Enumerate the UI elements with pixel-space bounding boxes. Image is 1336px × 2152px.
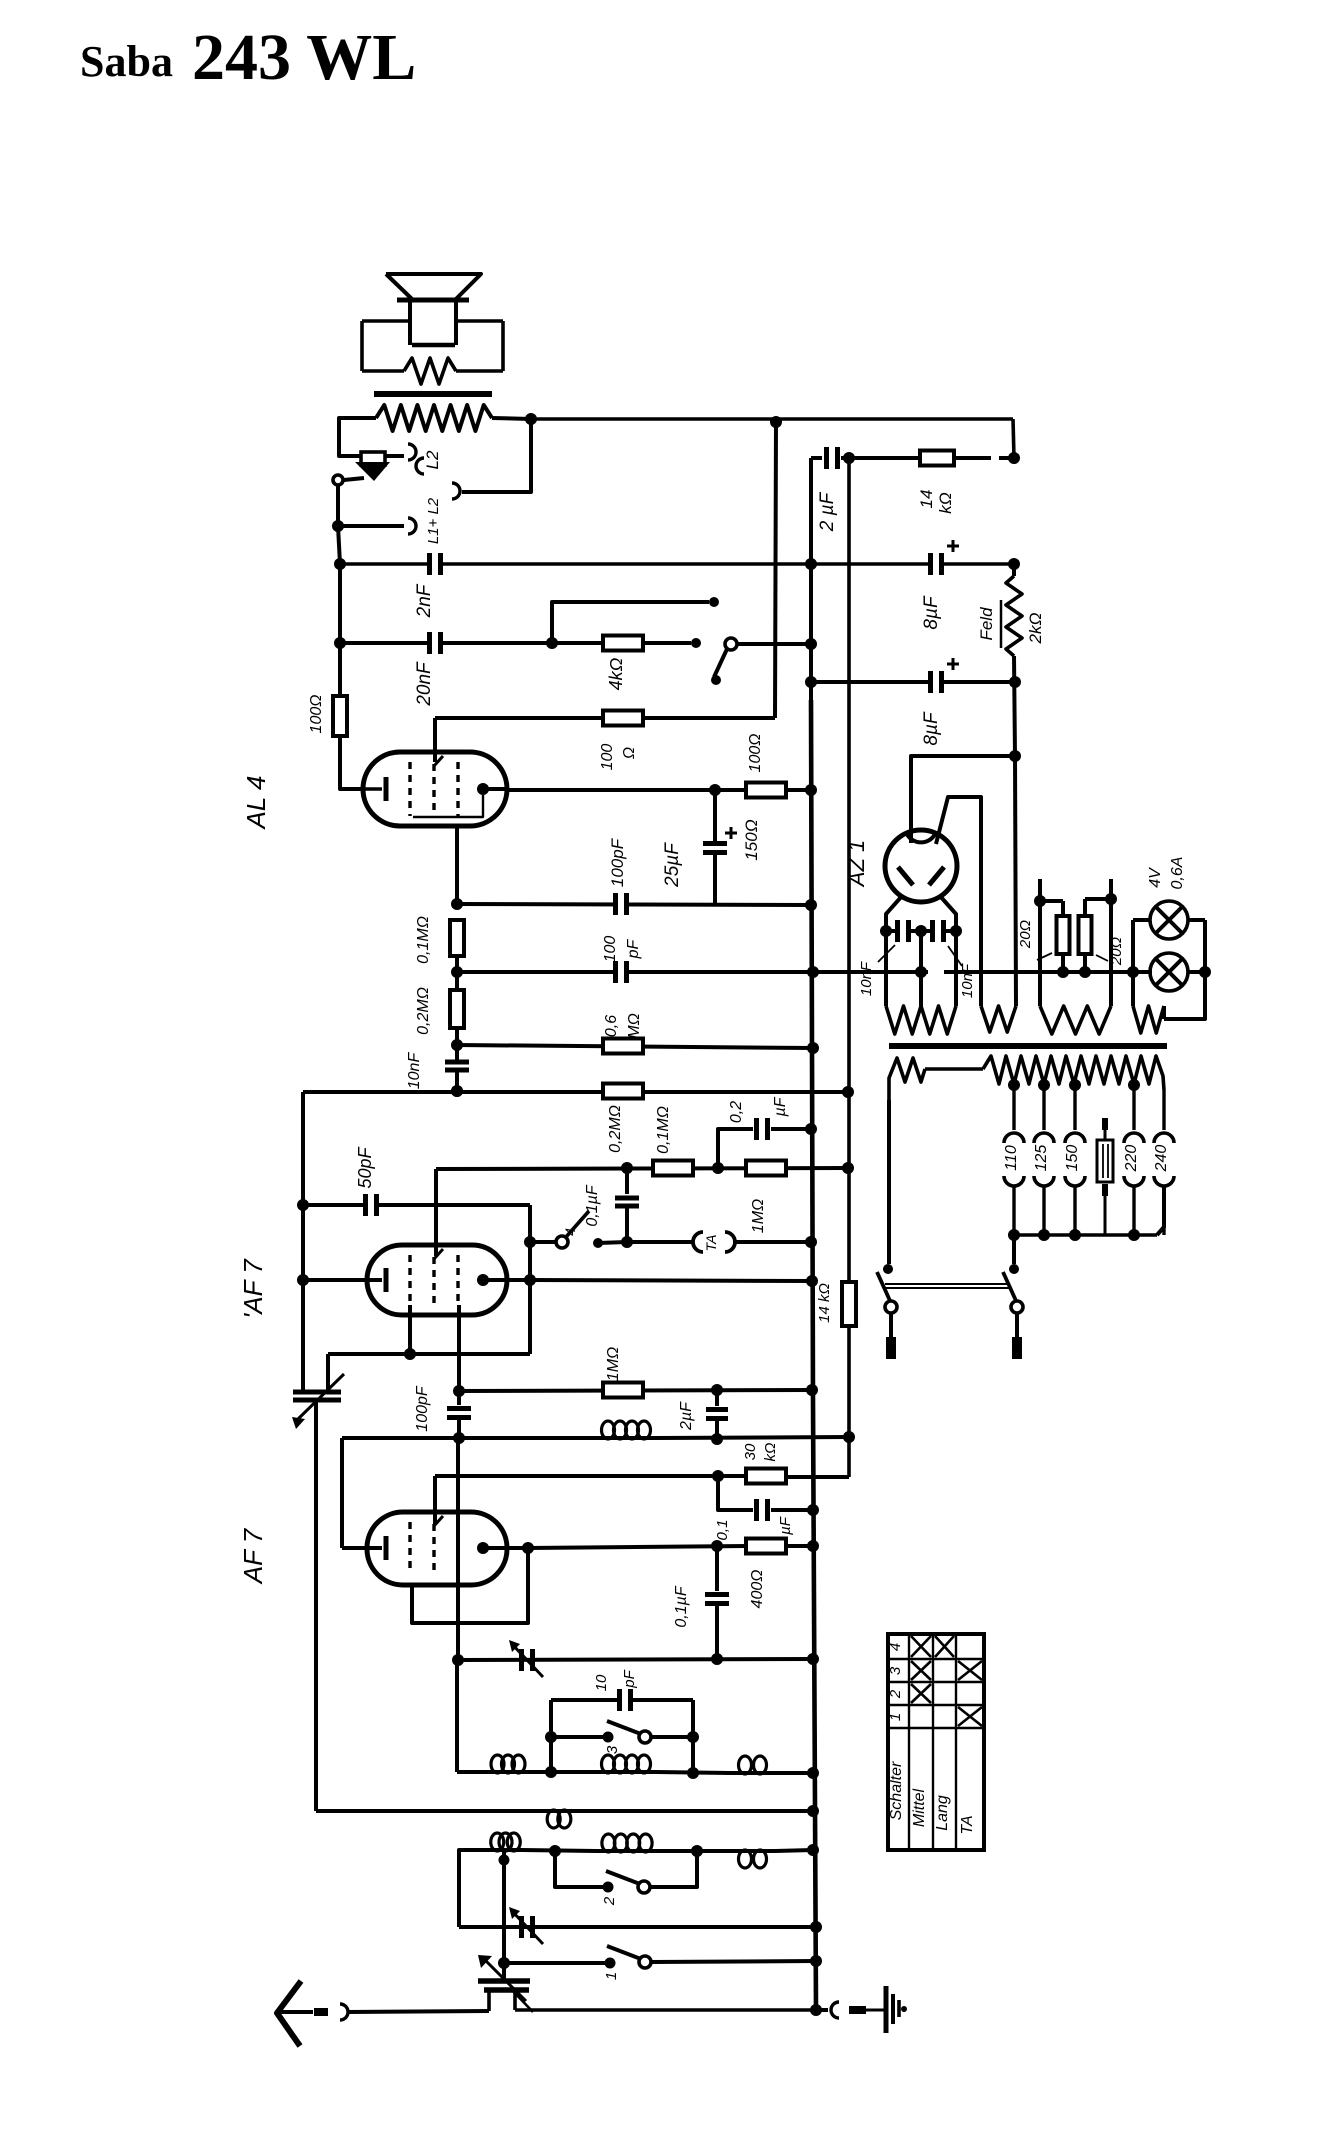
node tap 125 <box>1038 1079 1050 1091</box>
node coilrow mid <box>545 1766 557 1778</box>
wire AF7a grid rail <box>303 1278 382 1282</box>
node rail1546 stub <box>711 1540 723 1552</box>
coil ant2 <box>596 1770 656 1774</box>
switch tone pivot <box>725 638 737 650</box>
tap arc 150 lower <box>1065 1176 1085 1186</box>
node 20nF-4k junction <box>546 637 558 649</box>
mains switch left arm <box>877 1272 891 1303</box>
wire right rail to winding <box>1015 756 1016 1006</box>
wire rail 458 <box>811 456 822 460</box>
tap wire 125 lower <box>1042 1185 1045 1235</box>
mains switch left contact <box>883 1264 893 1274</box>
svg-text:AL 4: AL 4 <box>241 775 271 830</box>
wire right rail segment <box>1012 564 1016 576</box>
svg-text:100Ω: 100Ω <box>308 695 325 734</box>
capacitor 10nF left <box>886 929 899 933</box>
node sw3 right <box>687 1731 699 1743</box>
wire AF7a box left down <box>326 1354 330 1391</box>
resistor 20ohm a <box>1040 899 1063 903</box>
node rail1438 left <box>453 1432 465 1444</box>
wire tuning cap to ground bus <box>515 2008 816 2012</box>
svg-text:L2: L2 <box>423 450 442 469</box>
tube AL4 envelope <box>363 752 507 826</box>
svg-text:220: 220 <box>1123 1145 1140 1173</box>
node rail1546 bus <box>807 1540 819 1552</box>
node left bus top <box>332 520 344 532</box>
node 20ohm b rail <box>1079 966 1091 978</box>
speaker magnet housing <box>362 319 410 323</box>
svg-text:400Ω: 400Ω <box>749 1570 766 1609</box>
node rail1390 bus <box>806 1384 818 1396</box>
node coilrow bus <box>807 1767 819 1779</box>
wire primary left down <box>887 1100 891 1264</box>
wire to connector L1+L2 <box>338 524 404 528</box>
svg-text:MΩ: MΩ <box>626 1013 643 1039</box>
node rail1811 bus <box>807 1805 819 1817</box>
node rail682 right <box>1009 676 1021 688</box>
svg-text:2: 2 <box>601 1896 618 1906</box>
node screen top bus <box>770 416 782 428</box>
node 10nF right <box>950 925 962 937</box>
wire osc tap down <box>502 1861 506 1963</box>
node ground bus <box>810 2004 822 2016</box>
svg-text:10: 10 <box>593 1674 610 1691</box>
svg-text:Ω: Ω <box>621 747 638 759</box>
svg-text:AZ 1: AZ 1 <box>844 840 869 888</box>
svg-text:150Ω: 150Ω <box>742 819 761 860</box>
resistor 1M b <box>603 1383 643 1398</box>
tube AF7a grid1 dashed <box>408 1255 411 1305</box>
switch 3 <box>603 1732 614 1743</box>
wire rail 904 <box>457 904 811 905</box>
speaker cone wedge <box>355 462 390 481</box>
variable capacitor plates <box>478 1978 530 1984</box>
resistor 0.2M <box>450 990 464 1028</box>
winding lamp jag <box>1133 1006 1164 1033</box>
coil coupling <box>543 1809 575 1813</box>
wire pivot to bus <box>737 642 811 646</box>
winding dial jag <box>1040 1006 1111 1034</box>
winding heater1 legs <box>884 931 888 1006</box>
wire rail 564 <box>340 562 1014 565</box>
node 10nF left <box>880 925 892 937</box>
wire primary left to connector <box>339 418 404 456</box>
wire sw3 lead <box>551 1735 608 1739</box>
wire left bus to AL4 grid <box>340 736 365 789</box>
svg-text:4kΩ: 4kΩ <box>606 657 626 690</box>
svg-text:µF: µF <box>772 1096 789 1117</box>
svg-text:4: 4 <box>562 1228 578 1236</box>
wire osc coil to right <box>658 1849 730 1853</box>
wire rail 1476 <box>435 1474 747 1478</box>
resistor 150ohm <box>746 783 786 798</box>
tap wire 125 upper <box>1042 1085 1045 1130</box>
node AF7a anode box <box>524 1274 536 1286</box>
tube AL4 grid bar <box>384 777 389 801</box>
table X ta r1 <box>958 1707 982 1726</box>
svg-text:4: 4 <box>887 1643 904 1651</box>
wire 4k lead <box>552 641 604 645</box>
primary winding <box>889 1058 925 1100</box>
tube AF7a grid bar <box>384 1268 389 1292</box>
resistor 30k <box>746 1469 786 1484</box>
svg-text:20Ω: 20Ω <box>1017 920 1034 949</box>
tube AL4 grid2 dashed <box>432 764 435 816</box>
lamp 2 <box>1150 953 1188 991</box>
node tapbus 220 <box>1128 1229 1140 1241</box>
mains switch right arm <box>1003 1272 1017 1303</box>
coil osc3 <box>730 1849 775 1853</box>
capacitor 8uF lower <box>928 671 933 693</box>
capacitor 2nF <box>427 553 443 575</box>
svg-text:TA: TA <box>703 1235 719 1252</box>
output transformer primary winding <box>376 405 492 431</box>
connector arc L2 upper <box>408 444 416 460</box>
resistor 100ohm screen <box>603 711 643 726</box>
svg-text:0,2MΩ: 0,2MΩ <box>607 1105 624 1153</box>
wire sw3 right <box>651 1735 693 1739</box>
svg-text:0,2MΩ: 0,2MΩ <box>415 987 432 1035</box>
svg-text:AF 7: AF 7 <box>238 1527 268 1585</box>
fuse terminal top <box>1102 1118 1108 1130</box>
svg-text:'AF 7: 'AF 7 <box>238 1258 268 1319</box>
tube AL4 inner wire <box>413 795 483 817</box>
tube AF7b grid bar <box>384 1536 389 1560</box>
mains switch right contact <box>1009 1264 1019 1274</box>
tap wire 110 upper <box>1012 1085 1015 1130</box>
wire chain <box>455 956 459 990</box>
wire main bus vertical <box>809 458 813 700</box>
svg-text:243 WL: 243 WL <box>192 21 416 94</box>
tube AZ1 filament left <box>886 896 902 931</box>
node oscrow mid <box>549 1845 561 1857</box>
svg-text:Saba: Saba <box>80 37 173 86</box>
wire sw4 lead <box>530 1240 556 1244</box>
tap wire 220 upper <box>1132 1085 1135 1130</box>
svg-text:20nF: 20nF <box>414 661 435 707</box>
wire box vertical AF7a <box>528 1205 532 1354</box>
coil osc1 <box>489 1848 522 1852</box>
winding dial legs <box>1038 879 1042 1006</box>
capacitor 0.1uF c <box>718 1476 753 1510</box>
node rail1091 chain <box>451 1085 463 1097</box>
svg-text:kΩ: kΩ <box>936 492 955 514</box>
tap arc 125 lower <box>1034 1176 1054 1186</box>
wire stub up <box>552 602 709 643</box>
svg-text:2: 2 <box>887 1689 904 1699</box>
svg-text:pF: pF <box>625 938 642 959</box>
svg-text:kΩ: kΩ <box>762 1443 779 1462</box>
resistor 0.2M b <box>603 1084 643 1099</box>
lamp 1 <box>1150 901 1188 939</box>
transformer core bar <box>374 391 492 397</box>
tap arc 220 upper <box>1124 1133 1144 1143</box>
wire rail 1438 <box>342 1436 596 1440</box>
speaker terminal circle <box>333 475 343 485</box>
wire anode rail <box>507 788 747 792</box>
node AF7b anode <box>522 1542 534 1554</box>
wire left bus AF7 <box>301 1092 305 1392</box>
wire osc join <box>522 1850 596 1851</box>
node rail682 left <box>805 676 817 688</box>
resistor 1M a <box>746 1161 786 1176</box>
table X mittel r3 <box>911 1661 931 1680</box>
antenna plug dash <box>314 2008 328 2016</box>
trimmer cap 3 <box>519 1649 524 1671</box>
switch 2 <box>603 1882 614 1893</box>
svg-text:3: 3 <box>887 1666 904 1675</box>
node rail1963 bus <box>810 1955 822 1967</box>
node 14k right rail <box>1008 452 1020 464</box>
node 10nF mid <box>915 925 927 937</box>
switch 4 contact <box>593 1238 603 1248</box>
svg-text:2µF: 2µF <box>678 1401 695 1431</box>
capacitor 100pF a <box>613 893 629 915</box>
svg-text:0,6: 0,6 <box>603 1015 620 1037</box>
tap arc 240 upper <box>1154 1133 1174 1143</box>
node box sw4 <box>524 1236 536 1248</box>
svg-text:125: 125 <box>1033 1145 1050 1172</box>
tube AF7a lead2 <box>457 1305 461 1391</box>
capacitor 10nF grid <box>445 1060 469 1065</box>
svg-text:8µF: 8µF <box>921 595 942 630</box>
wire rail 718 <box>435 716 775 720</box>
wire lower coil corner <box>459 1850 489 1927</box>
svg-text:10nF: 10nF <box>406 1052 423 1090</box>
node anode rail bus <box>805 784 817 796</box>
wire lamp right loop <box>1164 920 1205 1019</box>
resistor 0.1M <box>450 920 464 956</box>
svg-text:0,1: 0,1 <box>714 1520 731 1541</box>
node chain 1091 <box>451 1085 463 1097</box>
wire rail 1811 <box>316 1809 543 1813</box>
table col lines <box>908 1634 910 1850</box>
switch tone arm end <box>711 675 721 685</box>
node stub contact <box>709 597 719 607</box>
node right rail anode1 <box>1009 750 1021 762</box>
wire TA to bus <box>733 1240 811 1244</box>
wire coil join <box>529 1770 596 1774</box>
wire chain2 <box>455 1070 459 1091</box>
table row lines <box>888 1658 984 1660</box>
node oscrow bus <box>807 1844 819 1856</box>
svg-text:100: 100 <box>602 936 619 963</box>
wire right rail segment2 <box>1014 656 1015 756</box>
variable capacitor arrow 2 <box>510 1988 533 2012</box>
wire to TA <box>627 1240 692 1244</box>
speaker frame bar <box>397 298 469 303</box>
wire 10nF mid down <box>919 931 923 972</box>
wire 240 corner <box>1157 1185 1164 1235</box>
node coilrow right <box>687 1767 699 1779</box>
capacitor 100pF c <box>457 1391 461 1405</box>
tube AZ1 plate left <box>898 867 913 885</box>
tube AZ1 dome <box>906 832 936 842</box>
svg-text:1MΩ: 1MΩ <box>605 1347 622 1381</box>
variable capacitor stem <box>502 1963 506 1981</box>
tap arc 150 upper <box>1065 1133 1085 1143</box>
tube AF7b grid1 dashed <box>408 1522 411 1573</box>
svg-text:0,1MΩ: 0,1MΩ <box>655 1106 672 1154</box>
winding heater1 jag <box>886 1006 956 1034</box>
wire cathode to coils <box>455 1660 459 1772</box>
resistor 14k <box>920 451 954 466</box>
svg-text:30: 30 <box>742 1443 759 1460</box>
speaker voice-coil resistor zigzag <box>404 358 456 384</box>
tap arc 125 upper <box>1034 1133 1054 1143</box>
tube AF7b cathode loop <box>412 1548 528 1623</box>
wire osc3 to bus <box>775 1850 813 1851</box>
node tap 110 <box>1008 1079 1020 1091</box>
fuse terminal bottom <box>1102 1184 1108 1196</box>
node leftbus grid <box>297 1274 309 1286</box>
svg-text:14 kΩ: 14 kΩ <box>816 1283 833 1323</box>
svg-text:3: 3 <box>604 1745 621 1754</box>
capacitor 10pF <box>617 1689 622 1711</box>
svg-text:50pF: 50pF <box>355 1146 375 1188</box>
wire rail 682 <box>811 680 928 684</box>
table frame <box>888 1634 984 1850</box>
tube AF7a grid3 dashed <box>456 1255 459 1305</box>
tap wire 240 upper <box>1162 1090 1165 1130</box>
capacitor 0.1uF sw4 <box>625 1168 629 1194</box>
wire AL4 top lead <box>433 718 437 762</box>
svg-text:100: 100 <box>599 744 616 771</box>
tube AZ1 plate right <box>929 867 944 885</box>
tube AF7a top lead <box>434 1169 438 1256</box>
node rail1963 left <box>498 1957 510 1969</box>
table X mittel r4 <box>911 1636 931 1657</box>
node 0.2uF bus <box>805 1123 817 1135</box>
wire sw2 drop <box>555 1851 608 1887</box>
wire antenna to tuning cap <box>347 2011 489 2012</box>
plus sign 25uF <box>725 832 737 835</box>
coil osc2 <box>596 1849 658 1853</box>
tube AL4 grid1 dashed <box>408 762 411 816</box>
svg-text:100pF: 100pF <box>414 1385 431 1432</box>
tube AF7a anode dot <box>477 1274 489 1286</box>
transformer core line <box>889 1043 1167 1049</box>
plus sign 8uF lower <box>947 663 959 666</box>
node anode-25uF <box>709 784 721 796</box>
node AF7a cathode <box>404 1348 416 1360</box>
node rail1660 left <box>452 1654 464 1666</box>
tube AF7a cathode lead <box>408 1305 412 1354</box>
plus sign 8uF upper <box>947 545 959 548</box>
svg-text:1: 1 <box>603 1972 620 1980</box>
wire 10pF box left <box>549 1700 553 1772</box>
svg-text:4V: 4V <box>1147 867 1164 888</box>
node rail1168 cap <box>621 1162 633 1174</box>
node 20ohm feed b <box>1105 893 1117 905</box>
wire tap bus <box>1014 1233 1157 1236</box>
node primary-right junction <box>525 413 537 425</box>
lamp 2 leads <box>1188 970 1205 974</box>
node AF7a lead2 junction <box>453 1385 465 1397</box>
wire second bus x=848 <box>847 458 851 1282</box>
node chain 1045 <box>451 1039 463 1051</box>
tap wire 240 lower <box>1162 1185 1165 1235</box>
svg-text:L1+ L2: L1+ L2 <box>425 497 442 544</box>
svg-text:TA: TA <box>959 1815 976 1834</box>
node sw4 cap <box>621 1236 633 1248</box>
svg-text:0,1MΩ: 0,1MΩ <box>415 916 432 964</box>
wire AF7b grid lead <box>342 1546 382 1550</box>
connector TA left <box>693 1232 703 1252</box>
tube AL4 anode lead <box>483 787 507 791</box>
capacitor 2uF <box>824 447 829 469</box>
node rail972 bus <box>807 966 819 978</box>
capacitor 0.1uF d <box>715 1546 719 1591</box>
wire grid riser AF7b <box>340 1438 344 1548</box>
svg-text:10nF: 10nF <box>858 961 875 996</box>
tube AZ1 anode2 lead <box>936 797 981 1006</box>
node 0.1uF c bus <box>807 1504 819 1516</box>
svg-text:Feld: Feld <box>977 607 996 641</box>
capacitor 100pF b <box>613 961 629 983</box>
table X mittel r2 <box>911 1684 931 1703</box>
wire sw1 lead <box>504 1961 610 1965</box>
wire sw4 to cap <box>598 1242 627 1243</box>
resistor 0.1M b <box>653 1161 693 1176</box>
svg-text:100pF: 100pF <box>608 837 627 887</box>
wire rail 1390 <box>459 1390 812 1391</box>
tube AF7a grid2 dashed <box>432 1257 435 1305</box>
variable capacitor arrow 1 <box>483 1958 526 2001</box>
tube AF7a envelope <box>367 1245 507 1315</box>
antenna symbol <box>277 1981 301 2046</box>
trimmer cap 2 <box>519 1916 524 1938</box>
node osc tap <box>502 1851 506 1860</box>
node AF7a anode bus <box>806 1275 818 1287</box>
tube AZ1 anode1 lead <box>911 756 1014 843</box>
mains switch link <box>885 1283 1009 1285</box>
capacitor 8uF upper <box>928 553 944 575</box>
tap wire 110 lower <box>1012 1185 1015 1235</box>
wire trimmer1 down <box>314 1400 318 1811</box>
wire 4k to contact <box>643 641 691 645</box>
lamp 1 leads <box>1133 918 1150 922</box>
node rail1476 stub <box>712 1470 724 1482</box>
node rail1438 2uF <box>711 1433 723 1445</box>
connector arc L1+L2 <box>408 518 416 534</box>
resistor 100ohm left bus <box>333 696 347 736</box>
connector TA right <box>725 1232 735 1252</box>
node lamp2 right <box>1199 966 1211 978</box>
wire sw1 right <box>651 1961 816 1962</box>
tube AF7a anode lead <box>483 1278 530 1282</box>
connector arc anode tap <box>452 483 460 499</box>
capacitor 0.2uF stub <box>718 1129 753 1168</box>
node rail1660 bus <box>807 1653 819 1665</box>
svg-text:Lang: Lang <box>934 1795 951 1831</box>
node rail1390 2uF <box>711 1384 723 1396</box>
switch 1 <box>605 1958 616 1969</box>
wire rail 1205 <box>303 1203 530 1207</box>
resistor 400ohm <box>746 1539 786 1554</box>
winding hv jag <box>981 1006 1016 1032</box>
wire terminal down <box>336 485 340 526</box>
ground bars <box>884 1986 889 2033</box>
svg-text:0,6A: 0,6A <box>1169 857 1186 890</box>
svg-text:0,1µF: 0,1µF <box>673 1585 690 1627</box>
speaker armature pole <box>361 452 385 465</box>
node rail904 bus <box>805 899 817 911</box>
wire rail 1091 <box>303 1090 848 1094</box>
table X lang r4 <box>935 1636 954 1657</box>
node lamp rail <box>1127 966 1139 978</box>
wire left bus <box>338 526 340 564</box>
